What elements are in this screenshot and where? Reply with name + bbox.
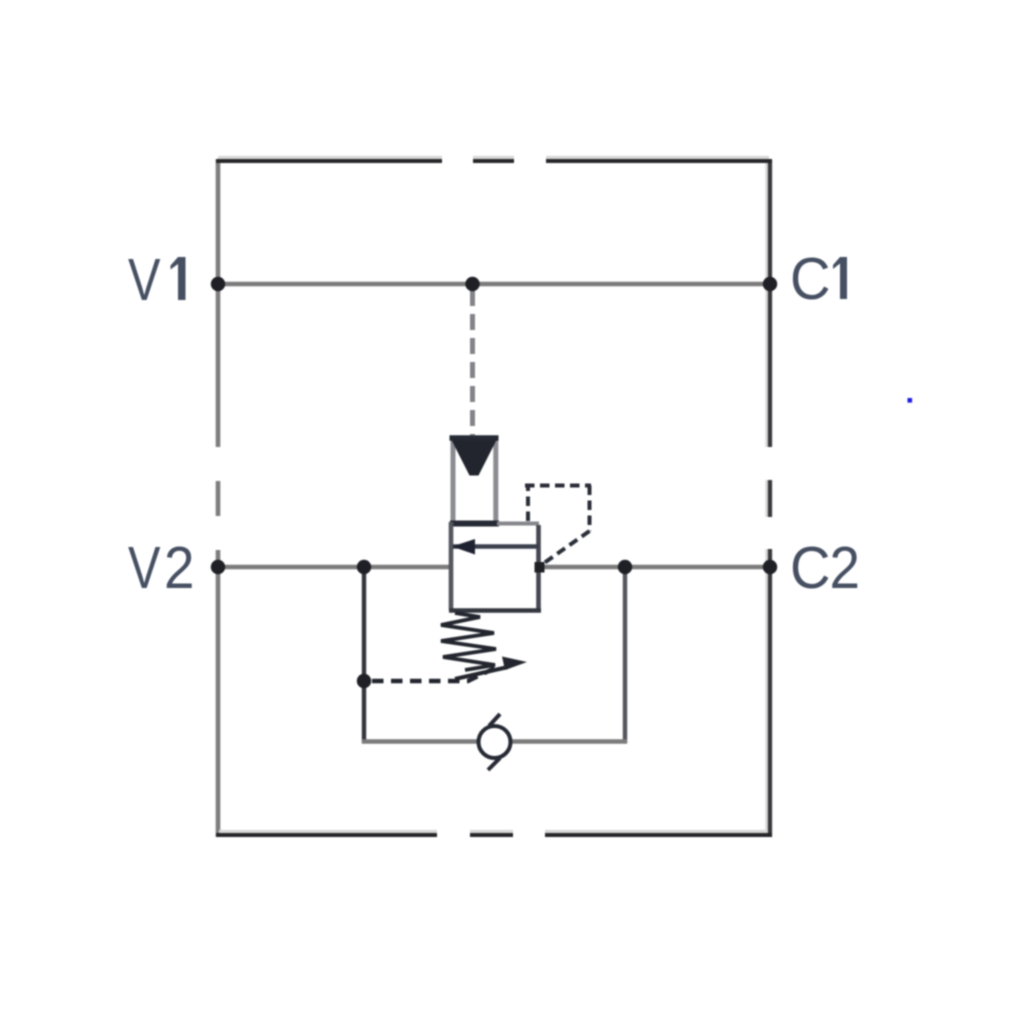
svg-text:2: 2 xyxy=(164,535,195,601)
svg-text:C: C xyxy=(790,535,831,601)
svg-text:C: C xyxy=(790,246,831,312)
svg-text:2: 2 xyxy=(830,535,861,601)
svg-text:V: V xyxy=(128,247,161,313)
svg-text:V: V xyxy=(128,535,161,601)
